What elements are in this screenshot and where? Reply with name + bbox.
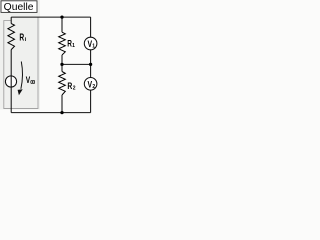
resistor R1 zigzag <box>59 32 66 55</box>
svg-text:2: 2 <box>92 84 95 90</box>
voltmeter V2 <box>84 78 97 91</box>
wire R1 to middle <box>61 55 63 64</box>
junction node top <box>60 15 63 18</box>
wire V1 bottom <box>90 50 92 65</box>
svg-text:Quelle: Quelle <box>4 2 34 13</box>
background shade behind source region <box>0 0 40 110</box>
junction node middle right <box>89 63 92 66</box>
voltmeter V1 <box>84 37 97 50</box>
wire V1 branch drop <box>90 17 92 37</box>
wire R1 branch drop <box>61 17 63 32</box>
wire top horizontal <box>11 16 90 18</box>
wire middle horizontal <box>62 63 91 65</box>
voltage source circle V00 <box>5 76 16 87</box>
wire source to bottom <box>10 87 12 113</box>
label box Quelle <box>1 1 37 13</box>
junction node bottom <box>60 111 63 114</box>
wire through source circle <box>10 76 12 87</box>
wire V2 top <box>90 64 92 77</box>
svg-text:R: R <box>19 32 24 43</box>
resistor R2 zigzag <box>59 72 66 96</box>
svg-text:1: 1 <box>72 43 75 49</box>
wire R2 to bottom <box>61 95 63 113</box>
svg-text:00: 00 <box>30 80 35 86</box>
wire R2 branch drop <box>61 64 63 71</box>
junction node middle left <box>60 63 63 66</box>
arrow V00 direction <box>21 62 23 89</box>
resistor Ri zigzag <box>8 24 15 50</box>
wire bottom horizontal <box>11 112 90 114</box>
svg-text:2: 2 <box>73 86 76 92</box>
svg-text:1: 1 <box>92 44 95 50</box>
wire Ri to source circle <box>10 50 12 76</box>
wire riser from Ri to top wire <box>10 17 12 24</box>
source enclosure box <box>4 17 38 108</box>
wire V2 bottom riser <box>90 90 92 112</box>
